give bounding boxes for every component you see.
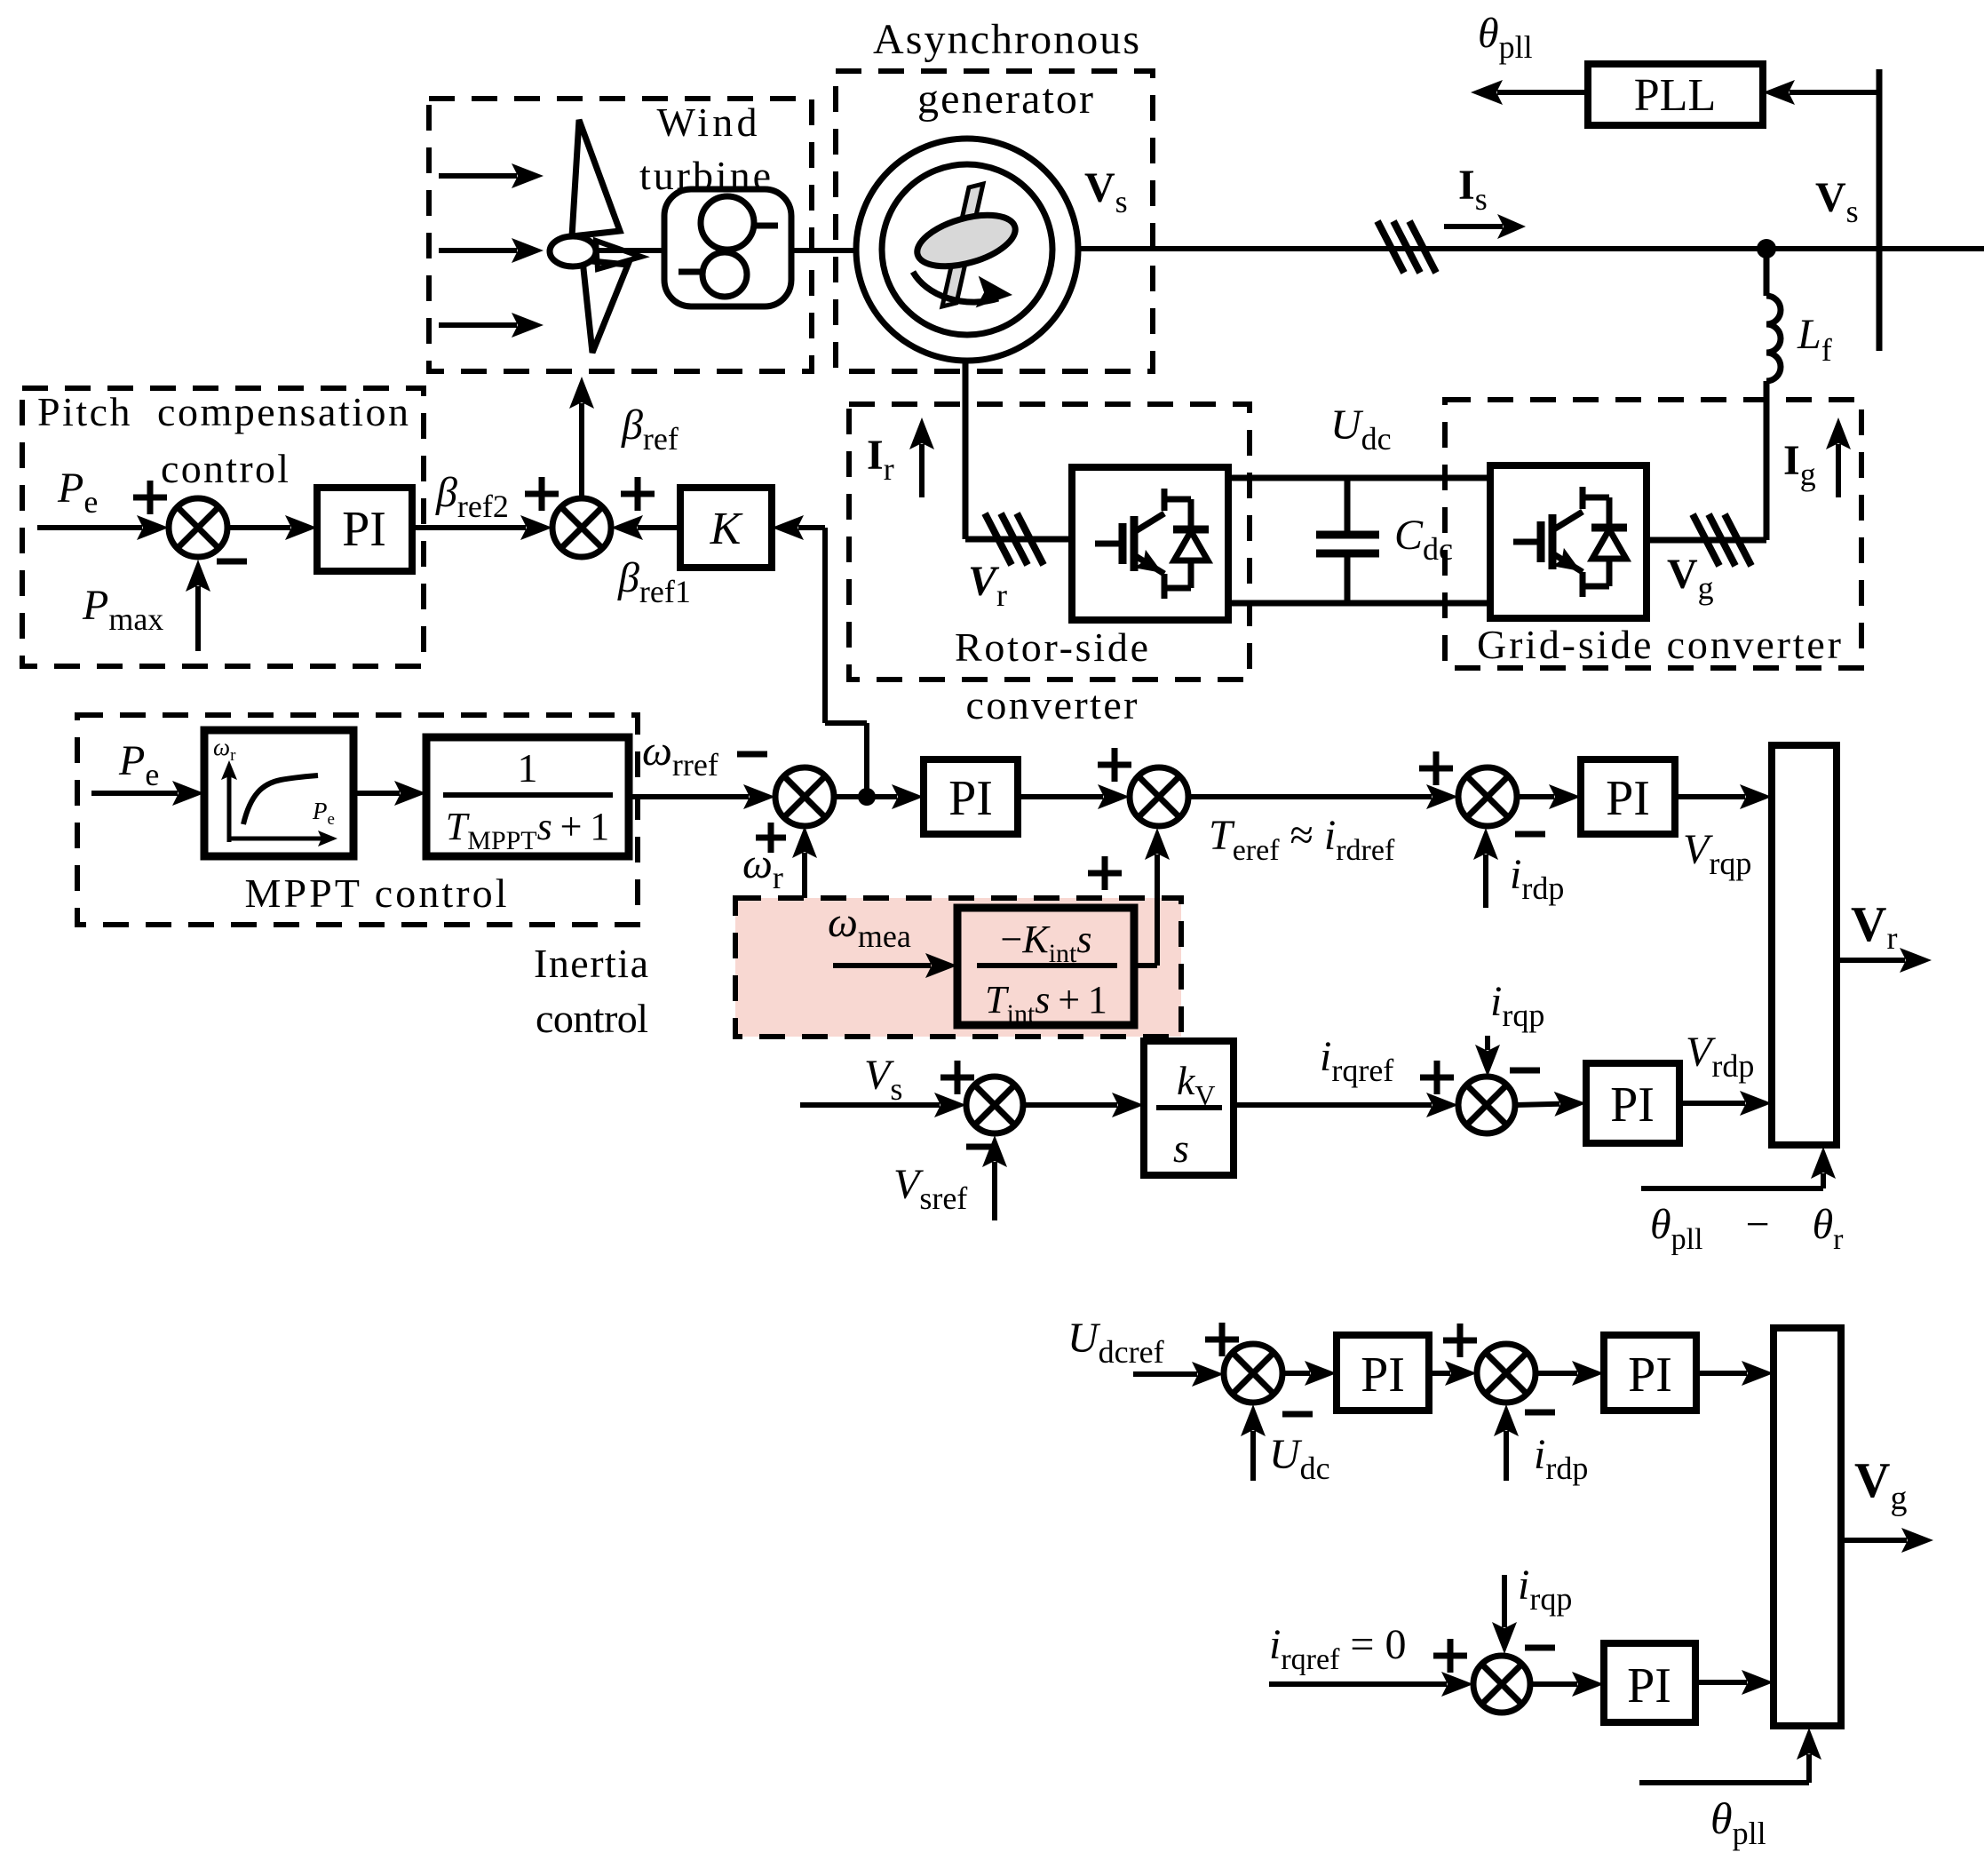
IGBT grid-side [1513,487,1627,597]
arrow Vg output [1841,1538,1907,1543]
wire bus to PLL [1790,90,1879,95]
generator G1 (machine symbol) [856,139,1078,361]
summing junction S9 [1477,1344,1536,1403]
svg-text:control: control [536,996,648,1041]
wire gearbox to generator [791,248,858,253]
wire generator rotor down [963,361,969,539]
wire GSC to Lf [1647,537,1766,544]
minus sign S6 [966,1144,996,1150]
arrow PI7 to transform2 [1695,1680,1747,1685]
gearbox [664,189,791,306]
wire Lf to grid-side converter [1764,381,1770,540]
plus sign S2 right [621,491,655,497]
arrow omega_rref into S3 [629,794,749,799]
plus sign S9 [1443,1338,1477,1344]
arrow inertia into S4 [1155,855,1160,862]
arrow Pe into S1 [37,525,142,530]
svg-text:PI: PI [1610,1077,1655,1133]
rotor-side converter dashed box [849,404,1250,680]
plus sign S4 left [1098,762,1131,768]
svg-text:Pitch compensation: Pitch compensation [37,389,409,434]
generator dashed box [836,71,1153,371]
wire theta_pll (grid) [1639,1780,1809,1785]
svg-text:Rotor-side: Rotor-side [955,624,1148,670]
plus sign S6 [940,1075,974,1081]
arrow PI4 to transform [1679,1101,1745,1106]
arrow S6 to kV/s [1023,1102,1117,1108]
block dq-abc transform (rotor) [1772,745,1837,1145]
svg-text:Tints + 1: Tints + 1 [985,978,1107,1029]
svg-text:−Kints: −Kints [1001,918,1092,968]
arrow omega_r into S3 [802,853,807,898]
block PI grid current d [1604,1335,1696,1411]
arrow irqp into S7 [1485,1036,1490,1050]
MPPT control dashed box [77,715,638,925]
capacitor Cdc [1316,478,1379,603]
arrow PI2 to S4 [1018,794,1103,799]
svg-text:PI: PI [1627,1658,1671,1713]
summing junction S5 [1458,767,1517,826]
wire DC bus bottom [1228,600,1490,607]
svg-text:generator: generator [917,76,1093,123]
summing junction S2 (beta) [552,498,611,557]
converter block GSC [1490,465,1647,618]
node stator-Lf junction [1757,239,1776,258]
inductor Lf [1766,296,1781,381]
IGBT rotor-side [1095,489,1209,599]
wire theta_pll minus theta_r [1641,1186,1823,1191]
arrow irdp into S9 [1504,1431,1509,1481]
block 1/(T_MPPT s+1) [426,737,629,856]
arrow S8 to PI5 [1282,1371,1310,1376]
block MPPT curve [204,730,353,856]
summing junction S4 [1130,767,1188,826]
plus sign S3 [756,835,786,841]
arrow Vs into S6 [800,1102,940,1108]
wire stator bus Vs [1077,246,1984,251]
plus sign S7 [1420,1075,1454,1081]
plus sign S10 [1433,1653,1467,1659]
arrow irdp into S5 [1483,855,1488,908]
summing junction S7 [1458,1077,1515,1133]
block PLL [1588,64,1763,125]
plus sign S1 [133,495,167,501]
svg-text:Inertia: Inertia [534,941,648,986]
arrow theta_pll into transform2 [1806,1754,1812,1783]
block PI current q [1586,1063,1679,1143]
summing junction S1 [169,498,227,557]
arrow S9 to PI6 [1536,1371,1577,1376]
svg-text:K: K [710,504,743,554]
minus sign S9 [1525,1410,1555,1416]
arrow Pe into curve block [91,791,178,796]
svg-text:PLL: PLL [1634,70,1716,121]
arrow Vsref into S6 [992,1162,997,1220]
block PI current d [1581,759,1675,834]
wind arrow 3 [439,322,517,328]
summing junction S10 [1473,1656,1530,1713]
block kV/s [1144,1041,1234,1175]
wire inertia block to S4 [1134,860,1157,966]
plus sign S5 left [1419,766,1453,772]
wire DC bus top [1228,475,1490,481]
svg-text:Grid-side converter: Grid-side converter [1477,622,1841,667]
arrow curve to MPPT tf [353,791,400,796]
block PI dc voltage [1337,1335,1429,1411]
block K [680,488,772,568]
svg-text:MPPT control: MPPT control [245,870,507,916]
arrow irqref into S10 [1269,1681,1447,1687]
svg-text:PI: PI [1628,1347,1672,1403]
wire PI1 to S2 [412,525,526,530]
wire omega node to K [825,528,867,797]
block PI speed [924,759,1018,834]
wire junction to Lf [1764,249,1770,296]
arrow S5 to PI3 [1517,794,1554,799]
wire S3 to PI2 [834,794,897,799]
arrow K to S2 [638,525,680,530]
svg-text:PI: PI [342,502,386,557]
arrow S1 to PI1 [228,525,290,530]
block PI grid current q [1604,1643,1695,1722]
summing junction S8 [1224,1344,1282,1403]
converter block RSC [1072,467,1228,620]
wire kV/s to S7 [1234,1102,1432,1108]
stator 3-phase slashes [1377,221,1404,273]
arrow beta_ref up to turbine [579,403,584,498]
svg-text:s: s [1173,1125,1189,1171]
svg-text:converter: converter [966,682,1138,727]
grid bus vertical bar [1877,69,1883,351]
turbine blades [550,120,641,353]
node K-branch [858,788,876,806]
minus sign S5 [1515,831,1545,838]
grid-side converter dashed box [1445,400,1861,668]
minus sign S7 [1510,1068,1540,1074]
arrow irqp into S10 [1502,1575,1507,1627]
wind arrow 2 [439,248,517,253]
svg-text:1: 1 [518,745,538,791]
svg-text:PI: PI [1361,1347,1405,1403]
rotor 3-phase slashes [985,513,1012,565]
plus sign S4 bottom [1088,870,1122,877]
wind arrow 1 [439,173,517,179]
wire S4 to S5 [1188,794,1432,799]
svg-text:Wind: Wind [657,99,758,145]
minus sign S10 [1525,1645,1555,1651]
arrow PI5 to S9 [1429,1371,1450,1376]
arrow PLL output theta_pll [1497,90,1588,95]
plus sign S2 left [525,491,559,497]
arrow Ig [1836,444,1841,497]
block PI pitch [317,488,412,571]
pitch compensation dashed box [22,388,424,666]
arrow into K [798,525,825,530]
arrow theta into transform [1821,1173,1826,1188]
svg-text:Asynchronous: Asynchronous [873,16,1139,63]
wire turbine shaft to gearbox [593,248,664,253]
summing junction S6 [966,1077,1023,1133]
arrow Pmax into S1 [195,586,201,651]
wind turbine dashed box [429,99,812,371]
minus sign S8 [1282,1411,1313,1418]
arrow Udcref into S8 [1133,1371,1197,1377]
arrow Ir [919,444,925,497]
arrow PI6 to transform2 [1696,1371,1747,1376]
wire rotor to RSC [965,537,1072,543]
block dq-abc transform (grid) [1774,1328,1841,1726]
arrow S10 to PI7 [1530,1681,1577,1687]
arrow omega_mea into inertia block [833,963,931,968]
arrow PI3 to transform [1675,794,1745,799]
svg-text:PI: PI [1606,771,1650,826]
plus sign S8 [1205,1337,1239,1343]
svg-text:PI: PI [948,771,993,826]
arrow Is [1444,224,1503,229]
inertia control shaded dashed box [735,898,1181,1037]
minus sign S3 [737,751,767,758]
minus sign S1 [217,559,247,565]
block -Kint s/(Tint s+1) [957,908,1134,1025]
arrow S7 to PI4 [1515,1104,1559,1105]
arrow Vr output [1837,958,1905,963]
arrow Udc into S8 [1250,1431,1256,1481]
summing junction S3 (speed) [775,767,834,826]
grid 3-phase slashes [1693,514,1719,566]
